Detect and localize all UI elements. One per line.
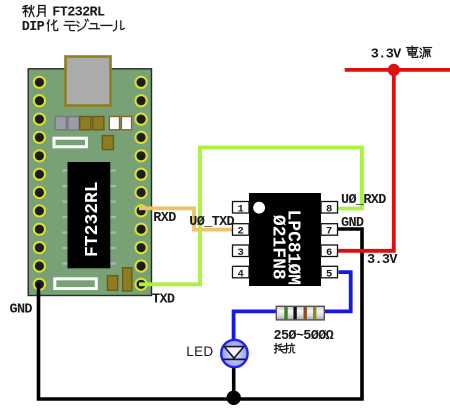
svg-text:7: 7 — [326, 226, 332, 238]
svg-text:LED: LED — [186, 344, 213, 359]
svg-text:UØ_RXD: UØ_RXD — [341, 193, 386, 208]
svg-text:GND: GND — [341, 216, 364, 231]
svg-text:3.3V: 3.3V — [367, 253, 398, 268]
svg-text:4: 4 — [238, 268, 244, 280]
svg-text:3: 3 — [238, 247, 244, 259]
svg-text:5: 5 — [326, 268, 332, 280]
svg-text:RXD: RXD — [153, 211, 176, 226]
svg-text:3.3V: 3.3V — [371, 47, 402, 62]
svg-text:GND: GND — [10, 302, 33, 317]
svg-text:Ø21FN8: Ø21FN8 — [268, 215, 288, 280]
svg-text:FT232RL: FT232RL — [83, 181, 103, 257]
svg-text:DIP: DIP — [22, 20, 45, 35]
svg-text:25Ø~5ØØΩ: 25Ø~5ØØΩ — [274, 329, 334, 344]
svg-text:8: 8 — [326, 204, 332, 216]
svg-text:1: 1 — [238, 204, 244, 216]
svg-text:2: 2 — [238, 226, 244, 238]
svg-text:UØ_TXD: UØ_TXD — [189, 215, 234, 230]
svg-text:FT232RL: FT232RL — [52, 5, 105, 20]
svg-text:6: 6 — [326, 247, 332, 259]
svg-text:TXD: TXD — [152, 293, 175, 308]
